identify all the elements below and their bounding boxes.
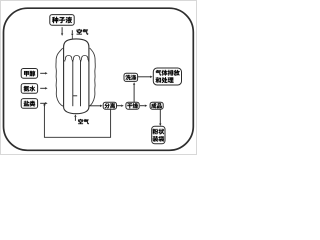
arrow: 洗涤 to gas discharge box — [138, 76, 150, 78]
arrowhead: recycle joins feed line — [43, 105, 45, 106]
annulus top hooks — [65, 56, 71, 60]
wire: recycle loop from 分离 bottom around to salts feed line — [44, 105, 110, 137]
label: 空气 (air, bottom) — [78, 119, 83, 124]
fermenter outer jacket wavy wall left — [56, 48, 64, 107]
arrow: 成品 down to 粉状装袋 — [159, 109, 161, 123]
label: 空气 (air, top) — [77, 29, 82, 35]
box: 洗涤 (washing) — [124, 73, 138, 81]
diagram rounded border — [4, 8, 194, 150]
box: 氨水 (ammonia water) — [21, 84, 37, 94]
arrow: methanol feed — [40, 72, 45, 74]
box: 粉状装袋 (powder bagging) — [152, 126, 165, 144]
outer hairline frame — [1, 1, 197, 155]
arrow: 干燥 exhaust up to 洗涤 — [133, 85, 135, 103]
arrow: 分离 to 干燥 — [117, 105, 121, 107]
box: 盐类 (salts) — [21, 99, 37, 109]
box: 种子液 (seed liquid) — [50, 15, 74, 26]
arrow: bottom air up into fermenter — [74, 117, 76, 121]
arrow: fermenter outlet to 分离 — [90, 105, 101, 107]
arrow: top air down through dome — [71, 30, 73, 34]
box: 干燥 (drying) — [126, 102, 139, 109]
box: 分离 (separation) — [103, 102, 116, 109]
box: 甲醇 (methanol) — [21, 69, 37, 79]
arrow: 干燥 to 成品 — [140, 105, 145, 107]
arrow: ammonia feed — [40, 87, 45, 89]
arrow: seed liquid down to fermenter dome — [61, 27, 63, 33]
fermenter outer jacket wavy wall right — [89, 48, 95, 107]
box: 气体排放和处理 (gas discharge and treatment) — [153, 68, 181, 85]
box: 成品 (product) — [150, 102, 163, 109]
arrow: salts feed — [40, 102, 45, 104]
draft tube wall lines — [73, 61, 81, 107]
fermenter inner vessel with dome top and round bottom — [64, 39, 89, 114]
